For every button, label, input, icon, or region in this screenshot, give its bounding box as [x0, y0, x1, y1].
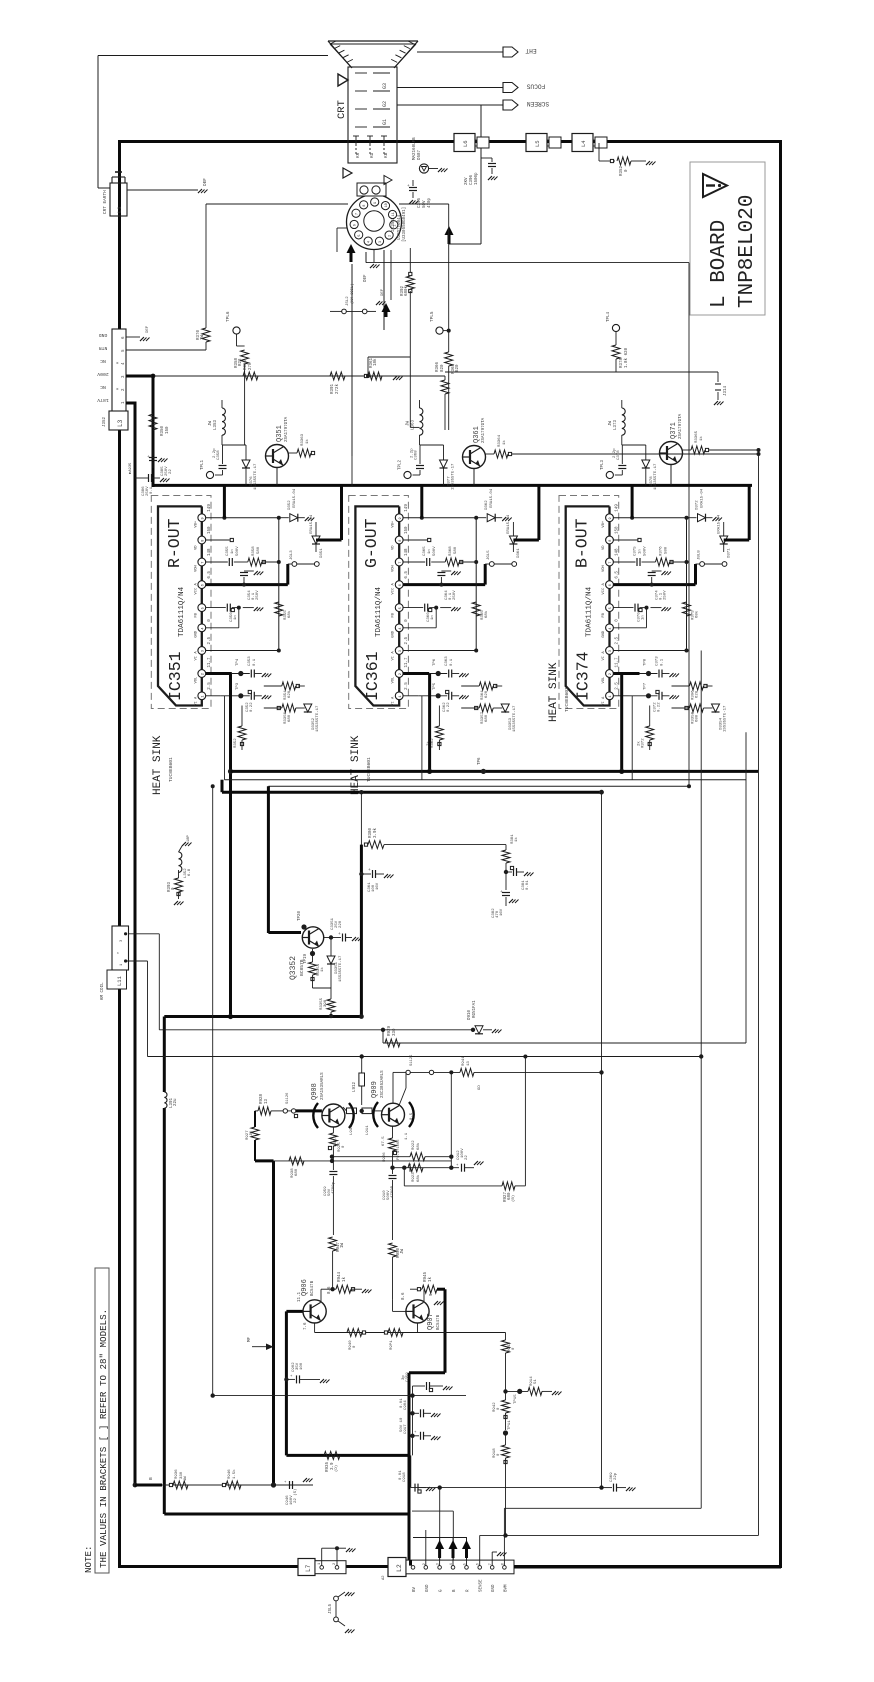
wire thick emitter row corner [255, 1159, 274, 1162]
svg-text:3: 3 [609, 650, 613, 652]
wire 200V rail drop thick [152, 374, 155, 487]
svg-text:Q361: Q361 [473, 426, 481, 443]
wire SENSE pin [479, 1535, 481, 1565]
svg-text:7.6: 7.6 [304, 1322, 308, 1330]
transistor Q361 2SA1797GTA [463, 446, 486, 469]
resistor R936 330 1W [173, 1481, 188, 1489]
diode D910 RGN1FA1 [471, 1028, 475, 1032]
svg-text:22: 22 [465, 1155, 469, 1160]
svg-text:TP6: TP6 [433, 658, 437, 666]
wire stage1 pin1 drop [224, 696, 226, 780]
svg-text:DEF: DEF [146, 325, 150, 333]
svg-text:[U330550G0491]: [U330550G0491] [402, 207, 407, 242]
wire IC374 feedback vertical [686, 518, 688, 651]
capacitor C352 0.22 [221, 695, 250, 697]
svg-text:ERA15-04: ERA15-04 [293, 488, 297, 508]
test point TPL5 [436, 327, 443, 334]
svg-text:272k: 272k [335, 383, 340, 394]
svg-text:148: 148 [405, 548, 409, 556]
svg-text:R946: R946 [228, 1469, 232, 1479]
svg-text:NC: NC [100, 358, 106, 364]
svg-text:TP20: TP20 [298, 910, 302, 921]
svg-text:4: 4 [609, 627, 613, 629]
svg-text:L373: L373 [614, 419, 618, 430]
resistor R947 1W [329, 1237, 337, 1251]
svg-text:250V: 250V [453, 590, 457, 600]
IC IC351 dashed outline box [151, 496, 211, 709]
diode D378 1SS355TE-17 [642, 460, 650, 468]
jumper S1126 [283, 1109, 287, 1113]
svg-text:2: 2 [333, 1563, 337, 1565]
svg-text:BV: BV [413, 1586, 417, 1592]
svg-text:JSL2: JSL2 [346, 296, 350, 306]
wire riser R361 to R392 chain [367, 357, 369, 376]
svg-text:5: 5 [358, 235, 362, 237]
svg-text:L353: L353 [214, 419, 218, 430]
svg-text:8: 8 [399, 540, 403, 542]
svg-text:TP7: TP7 [644, 682, 648, 690]
svg-text:Q906: Q906 [301, 1279, 309, 1296]
wire IC351 pin8 [206, 539, 230, 541]
svg-text:68k: 68k [416, 1142, 421, 1150]
capacitor C959 50V 4700p [330, 1159, 334, 1163]
svg-text:1500p: 1500p [475, 172, 479, 185]
svg-text:R378: R378 [620, 357, 624, 368]
svg-text:CRT EARTH: CRT EARTH [103, 190, 108, 214]
svg-text:JW: JW [250, 1131, 254, 1136]
svg-text:ERA15-04: ERA15-04 [718, 514, 722, 534]
svg-text:C396: C396 [470, 174, 474, 185]
svg-text:R9P1: R9P1 [390, 1340, 394, 1350]
svg-text:580: 580 [454, 546, 458, 554]
wire y1043 [383, 1042, 746, 1044]
test point TP7 [646, 693, 651, 698]
svg-text:500V: 500V [433, 546, 437, 556]
svg-text:11.1: 11.1 [298, 1291, 302, 1302]
svg-text:250V: 250V [664, 590, 668, 600]
svg-text:2SA1797GTA: 2SA1797GTA [679, 413, 683, 439]
svg-text:4: 4 [201, 627, 205, 629]
wire left leg x255 [254, 1111, 256, 1127]
svg-text:TDA6111Q/N4: TDA6111Q/N4 [586, 586, 594, 637]
resistor R350 150 [149, 414, 157, 430]
transistor Q908 2SA1535ARLS [322, 1104, 345, 1127]
svg-text:0: 0 [616, 619, 620, 622]
svg-text:VCC A: VCC A [194, 582, 198, 594]
wire IC351 pin5 [206, 607, 226, 609]
CRT cathode pins KR KG KB [355, 136, 357, 144]
svg-text:Q351: Q351 [276, 425, 284, 442]
wire IC374 pin3 [613, 650, 686, 652]
svg-text:3: 3 [379, 241, 383, 243]
svg-text:+: + [290, 1375, 293, 1379]
svg-text:0.1: 0.1 [450, 658, 454, 666]
svg-text:VD: VD [602, 545, 606, 550]
svg-text:1W: 1W [201, 334, 205, 340]
svg-text:50V 10: 50V 10 [400, 1417, 404, 1432]
svg-text:149: 149 [208, 504, 212, 512]
svg-text:7: 7 [609, 562, 613, 564]
resistor R391 272k [330, 372, 345, 380]
wire collector Q351 down [276, 468, 278, 486]
warning triangle near socket [343, 168, 352, 178]
svg-text:1SS355TE-17: 1SS355TE-17 [254, 463, 258, 490]
svg-text:18k: 18k [373, 358, 378, 366]
capacitor C372 0.22 [629, 695, 658, 697]
svg-text:VI A: VI A [194, 696, 198, 706]
wire IC361 pin3 [403, 650, 476, 652]
svg-text:1k: 1k [320, 967, 325, 972]
svg-text:330: 330 [393, 1028, 397, 1036]
wire x689 stage3 riser [688, 752, 690, 786]
svg-text:D351: D351 [320, 548, 324, 558]
svg-text:680: 680 [696, 714, 700, 722]
svg-text:11.7: 11.7 [405, 657, 409, 668]
signal arrow into socket right [445, 226, 454, 235]
wire GND pin to ground [126, 336, 140, 338]
jumper JBLB [694, 564, 697, 585]
svg-text:580: 580 [665, 546, 669, 554]
connector arrow FOCUS [503, 83, 518, 93]
svg-text:620: 620 [456, 364, 460, 372]
svg-text:GND: GND [194, 630, 198, 638]
svg-text:+: + [284, 1481, 287, 1485]
svg-text:2.5: 2.5 [208, 682, 212, 690]
jumper JGL5 [484, 564, 487, 585]
svg-text:0.1: 0.1 [661, 658, 665, 666]
connector L4 on top edge [572, 134, 593, 152]
svg-text:HEAT SINK: HEAT SINK [152, 735, 164, 795]
wire IC351 pin2 VOL output thick [206, 672, 232, 675]
svg-text:NC: NC [100, 384, 106, 390]
svg-text:0.22: 0.22 [250, 702, 254, 712]
svg-text:VOH: VOH [194, 565, 198, 572]
svg-text:TPL3: TPL3 [601, 459, 605, 470]
svg-text:ERA15-04: ERA15-04 [701, 488, 705, 508]
svg-text:ERA15-04: ERA15-04 [310, 514, 314, 534]
svg-text:10: 10 [385, 203, 389, 207]
resistor R380 3.9k [368, 841, 384, 849]
svg-text:2KV: 2KV [465, 177, 469, 185]
svg-text:R-OUT: R-OUT [165, 518, 184, 568]
ground DEF at JSL2 [367, 310, 376, 312]
svg-text:1n: 1n [431, 615, 435, 620]
svg-text:A2: A2 [382, 1575, 386, 1580]
IC IC351 pins [198, 514, 206, 522]
svg-text:3.9k: 3.9k [373, 827, 378, 838]
jumper JSL5 [334, 1596, 339, 1601]
svg-text:Q3352: Q3352 [289, 956, 298, 980]
svg-text:G3: G3 [382, 83, 388, 89]
svg-text:CRT: CRT [336, 100, 348, 119]
svg-text:6: 6 [609, 584, 613, 586]
resistor R368 620 [445, 352, 453, 366]
wire left bus thick vertical x164 [163, 1017, 166, 1093]
svg-text:1k: 1k [342, 1276, 347, 1282]
svg-text:1n: 1n [639, 549, 643, 554]
wire IC351 pin1 [206, 695, 221, 697]
svg-text:L5: L5 [534, 140, 541, 147]
capacitor C363 0.1 [429, 673, 447, 675]
svg-text:►A935: ►A935 [128, 462, 133, 474]
test point TP11 [503, 1430, 508, 1435]
svg-text:3: 3 [399, 650, 403, 652]
test point TP20 [301, 924, 306, 929]
wire cathode KG down [365, 252, 367, 263]
svg-text:S1126: S1126 [286, 1092, 290, 1104]
svg-text:KM COIL: KM COIL [101, 982, 105, 1000]
svg-text:9: 9 [374, 202, 378, 204]
wire 200V row thin [153, 375, 445, 377]
capacitor C360 1n [424, 604, 426, 612]
svg-text:R358: R358 [252, 546, 256, 556]
svg-text:1SS355TE-17: 1SS355TE-17 [724, 705, 728, 732]
svg-text:(D): (D) [334, 1465, 339, 1472]
wire B-OUT output drop thick [620, 674, 623, 772]
capacitor C3351 25V 220 [331, 937, 341, 939]
svg-text:TDA6111Q/N4: TDA6111Q/N4 [178, 586, 186, 637]
svg-text:500V: 500V [644, 546, 648, 556]
svg-text:6: 6 [201, 584, 205, 586]
connector L6 on top edge [454, 134, 475, 152]
resistor R396 620 [672, 685, 690, 687]
CRT internal dashed electrodes [355, 72, 367, 74]
ground DEF at L1 [198, 189, 202, 193]
wire IC351 pin4 GND [206, 627, 239, 629]
diode D371 ERA15-04 [720, 536, 728, 544]
svg-text:DEF: DEF [381, 288, 385, 296]
svg-text:GD: GD [478, 1085, 482, 1090]
wire y1511 elbow [412, 1510, 453, 1512]
svg-text:16V: 16V [376, 882, 380, 890]
svg-text:4: 4 [399, 627, 403, 629]
svg-text:U3SD7Y0044: U3SD7Y0044 [398, 214, 402, 240]
svg-text:R3365: R3365 [695, 430, 699, 443]
svg-text:22: 22 [169, 469, 173, 474]
CRT funnel [328, 40, 418, 42]
test point TPL1 [206, 471, 213, 478]
svg-text:149: 149 [616, 504, 620, 512]
svg-text:0.01: 0.01 [399, 1470, 403, 1480]
svg-text:C363: C363 [445, 656, 449, 666]
svg-text:FB: FB [392, 612, 396, 617]
wire IC374 pin5 [613, 607, 633, 609]
svg-text:TPL6: TPL6 [226, 311, 231, 322]
resistor R375 68k [683, 602, 691, 616]
diode D351 ERA15-04 [312, 536, 320, 544]
resistor R368 580 on pin7 [431, 561, 445, 563]
resistor R392 680k chain from socket [409, 248, 411, 274]
svg-text:TP15: TP15 [514, 1394, 518, 1404]
svg-text:R944: R944 [338, 1271, 342, 1282]
inductor L363 JW [420, 408, 423, 435]
resistor R3354 1k [312, 949, 314, 962]
svg-text:TUC8EB601: TUC8EB601 [564, 687, 570, 712]
svg-text:620: 620 [696, 690, 700, 698]
wire thick y1455 [286, 1454, 409, 1457]
svg-text:GND: GND [426, 1584, 430, 1592]
svg-text:TP6: TP6 [478, 757, 482, 765]
svg-text:0: 0 [512, 1347, 516, 1350]
jumper J314 [717, 372, 719, 382]
svg-text:+: + [338, 932, 341, 937]
wire G line from pin3 [439, 1488, 441, 1566]
svg-text:68k: 68k [416, 1174, 421, 1182]
svg-text:1SS355TE-17: 1SS355TE-17 [452, 463, 456, 490]
test point TP8 [646, 671, 651, 676]
svg-text:1k: 1k [428, 1276, 433, 1282]
wire y1395 long [213, 1395, 466, 1397]
resistor base Q361 [486, 453, 495, 455]
svg-text:+: + [407, 184, 410, 189]
svg-text:0.1: 0.1 [150, 486, 154, 494]
transistor Q3352 BC857B [302, 927, 323, 948]
resistor R922 68k [410, 1153, 425, 1161]
svg-text:2: 2 [201, 673, 205, 675]
wire 200V drop to IC351 pin9 [223, 485, 226, 517]
diode D352 ERA15-04 [279, 517, 289, 519]
svg-text:C378: C378 [617, 450, 621, 460]
svg-text:0: 0 [208, 619, 212, 622]
svg-text:L7: L7 [305, 1564, 312, 1572]
svg-text:11.7: 11.7 [616, 657, 620, 668]
svg-text:250V: 250V [256, 590, 260, 600]
svg-text:MA2160LFB: MA2160LFB [413, 137, 417, 160]
svg-text:2.5: 2.5 [616, 682, 620, 690]
resistor R356 27k [243, 372, 258, 380]
wire Q909 collector up [399, 1088, 406, 1106]
wire CRT earth loop top [98, 55, 328, 57]
svg-text:L911: L911 [366, 1125, 370, 1135]
resistor R928 13 [255, 1110, 258, 1112]
svg-text:100: 100 [300, 1362, 304, 1370]
diode D3353 1SS355TE-17 [501, 704, 509, 712]
svg-text:0.5: 0.5 [410, 1112, 414, 1120]
connector arrow EHT [503, 47, 518, 57]
svg-text:TPL5: TPL5 [430, 311, 435, 322]
resistor R362 2k [438, 706, 440, 727]
resistor R943 0 [502, 1340, 510, 1353]
wire band y779 [225, 779, 747, 781]
svg-text:R922: R922 [412, 1140, 416, 1150]
svg-text:TP8: TP8 [644, 658, 648, 666]
wire IC361 pin9 VB+ [403, 517, 476, 519]
connector L11 KM COIL [112, 926, 129, 970]
svg-text:R376: R376 [660, 546, 664, 556]
svg-text:VD: VD [194, 545, 198, 550]
capacitor C396 1500p 2KV [481, 157, 492, 159]
svg-text:L1: L1 [116, 206, 123, 213]
svg-text:R928: R928 [260, 1093, 264, 1104]
svg-text:J352: J352 [103, 416, 107, 427]
wire x525 riser [524, 1057, 526, 1186]
svg-text:0.22: 0.22 [658, 702, 662, 712]
svg-text:68k: 68k [484, 610, 489, 618]
capacitor C368 2.2p [413, 474, 421, 476]
svg-text:TPL1: TPL1 [201, 459, 205, 470]
resistor R372 2k [649, 706, 651, 727]
wire 187V pin thick [126, 402, 137, 405]
svg-text:C355: C355 [226, 546, 230, 556]
wire 200V drop to IC361 pin9 [420, 485, 423, 517]
svg-text:11.7: 11.7 [208, 657, 212, 668]
svg-text:2k: 2k [637, 741, 642, 746]
capacitor C365 1n 500V on pin7 [403, 561, 425, 563]
svg-text:1.5k: 1.5k [232, 1469, 237, 1479]
svg-text:VI A: VI A [392, 651, 396, 661]
svg-text:VI A: VI A [602, 696, 606, 706]
svg-text:7: 7 [201, 562, 205, 564]
wire collector Q371 down [670, 465, 672, 486]
svg-text:148: 148 [208, 548, 212, 556]
resistor R929 330 [385, 1039, 400, 1047]
resistor R358 620 [236, 334, 238, 346]
svg-text:2: 2 [399, 673, 403, 675]
svg-text:0: 0 [405, 619, 409, 622]
svg-text:2.5: 2.5 [405, 682, 409, 690]
test point TP3 [238, 693, 243, 698]
svg-text:C368: C368 [415, 450, 419, 460]
capacitor C358 2.2p [215, 474, 223, 476]
wire IC361 pin4 GND [403, 627, 436, 629]
wire R947 to collector node [330, 1287, 334, 1291]
wire x701 stage3 feedback / BVM leg [700, 651, 702, 1509]
wire y1056 Q908 feed [148, 1056, 702, 1058]
svg-text:68k: 68k [287, 610, 292, 618]
wire BV pin thick [409, 1560, 412, 1566]
svg-text:2.2p: 2.2p [613, 448, 617, 458]
svg-text:148: 148 [616, 548, 620, 556]
svg-text:0: 0 [497, 1453, 501, 1456]
svg-text:D587: D587 [418, 149, 422, 160]
svg-text:R929: R929 [388, 1025, 392, 1036]
svg-text:VOL: VOL [602, 676, 606, 684]
svg-text:L2: L2 [396, 1564, 403, 1572]
inductor L391 22u [164, 1092, 167, 1108]
svg-text:L3: L3 [117, 419, 124, 427]
svg-text:1n: 1n [234, 615, 238, 620]
svg-text:GND: GND [392, 630, 396, 638]
svg-text:JW: JW [401, 1248, 405, 1254]
wire FOCUS [397, 87, 503, 89]
svg-text:820: 820 [441, 364, 445, 372]
svg-text:G-OUT: G-OUT [362, 518, 381, 568]
svg-text:5: 5 [399, 607, 403, 609]
svg-text:JSL5: JSL5 [329, 1603, 333, 1614]
signal arrow at JSL2 [382, 303, 391, 312]
svg-text:FB: FB [602, 612, 606, 617]
wire SCREEN to socket pin [449, 243, 481, 245]
resistor R352 0 [598, 143, 600, 161]
svg-text:BVM: BVM [504, 1584, 508, 1592]
wire IC351 pin6 VCC A thick [206, 583, 288, 586]
svg-text:6.5: 6.5 [405, 571, 409, 579]
svg-text:C353: C353 [248, 656, 252, 666]
svg-text:680: 680 [485, 714, 489, 722]
svg-text:TUC8EB601: TUC8EB601 [168, 757, 174, 782]
svg-text:TP3: TP3 [236, 682, 240, 690]
svg-text:KR: KR [356, 152, 361, 158]
wire row to J314 [622, 371, 718, 373]
resistor R361 18k [364, 374, 367, 377]
signal arrow G [439, 1537, 441, 1566]
svg-text:2SA1535ARLS: 2SA1535ARLS [321, 1072, 325, 1100]
svg-text:D371: D371 [728, 548, 732, 558]
svg-text:1k: 1k [305, 439, 310, 444]
svg-text:6.5: 6.5 [208, 571, 212, 579]
CRT socket JK351 [347, 195, 402, 250]
jumper S1125 and R941 13 [393, 1071, 406, 1073]
